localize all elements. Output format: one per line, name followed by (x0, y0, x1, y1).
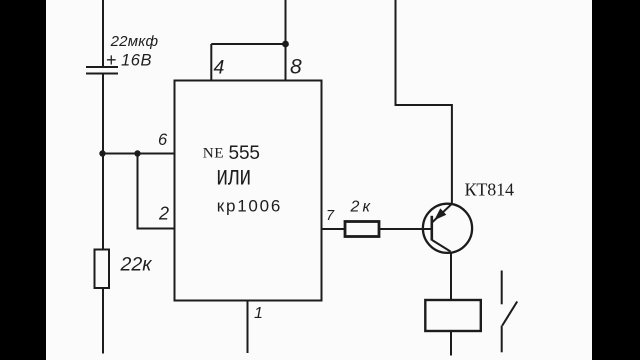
op-amp U1 NE555 box (175, 81, 322, 301)
capacitor C1 22мкф 16В (86, 67, 118, 74)
svg-text:6: 6 (158, 131, 168, 149)
svg-text:16В: 16В (121, 52, 152, 70)
node junction (134, 150, 140, 156)
wire (285, 0, 287, 44)
transistor Q1 collector line (432, 240, 451, 252)
switch S1 (502, 271, 518, 353)
wire (379, 228, 433, 230)
svg-text:+: + (106, 50, 117, 70)
svg-text:22к: 22к (120, 254, 153, 276)
transistor Q1 base bar (430, 216, 433, 241)
wire (102, 288, 104, 354)
wire (102, 74, 104, 154)
wire pin 1 (247, 301, 249, 354)
pin 4 stub (210, 44, 212, 81)
wire (450, 252, 452, 301)
resistor R1 22к (95, 250, 110, 289)
node junction (99, 150, 105, 156)
node junction (282, 41, 289, 48)
transistor Q1 emitter line (432, 204, 452, 223)
transistor Q1 KT814 circle (423, 204, 472, 253)
relay K1 coil (425, 300, 481, 331)
svg-text:2: 2 (158, 203, 169, 223)
svg-text:4: 4 (214, 57, 225, 79)
wire (396, 0, 452, 204)
svg-text:КТ814: КТ814 (465, 180, 515, 200)
svg-text:22мкф: 22мкф (110, 33, 159, 50)
wire (102, 0, 104, 67)
transistor Q1 emitter arrow (434, 208, 446, 220)
pin 8 stub (285, 44, 287, 81)
svg-text:7: 7 (326, 208, 335, 224)
resistor R2 2к (345, 222, 379, 237)
wire (138, 154, 176, 229)
svg-text:8: 8 (290, 56, 302, 79)
wire (211, 43, 285, 45)
svg-text:или: или (217, 160, 252, 191)
wire pin 7 (322, 228, 346, 230)
wire (102, 154, 104, 251)
svg-text:кр1006: кр1006 (217, 197, 280, 216)
svg-text:1: 1 (254, 305, 263, 322)
wire (450, 331, 452, 356)
wire (102, 153, 175, 155)
